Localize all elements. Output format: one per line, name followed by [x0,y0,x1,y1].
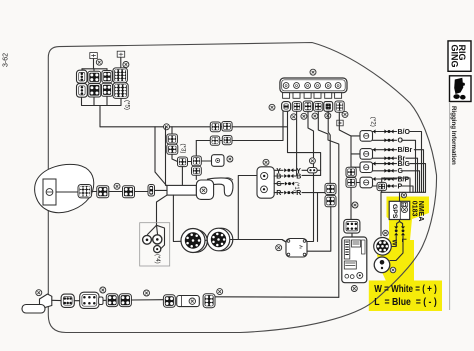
wire round1-round2 [207,240,210,242]
outboard motor blob [35,164,94,212]
boat hull outline [48,43,436,333]
highlight NMEA/GPS area [377,197,429,282]
wire B/Br row [373,149,397,151]
bullet W wire [394,226,398,235]
mark s6 [342,111,348,117]
wire K4 to base [155,189,168,191]
connector chain B [192,156,202,166]
svg-text:G: G [276,181,282,188]
arrow B/Br [373,148,376,152]
wire Y row b [293,169,296,171]
wire chain to corner [215,296,339,299]
mark on control head [200,187,207,194]
wire strip3 to b-box [307,112,314,242]
wire B row c [302,174,321,176]
connector S1 [106,294,118,307]
bullet G [384,169,393,173]
strip lower tabs [283,93,342,99]
wire strip1 down detour [288,111,321,175]
svg-text:(*2): (*2) [370,117,377,127]
wire collect [381,191,426,193]
mark round7 [383,230,389,236]
wire gps split [397,220,400,227]
tab RIG GING box [448,41,471,71]
wire strip5 to P2 [328,111,330,183]
connector K3 [123,186,135,198]
wire harness2 [196,112,283,141]
bullet R row [284,191,293,195]
mark t2 [100,287,106,293]
GPS mini connector [401,202,407,206]
bullet O [384,138,393,142]
wire Y row a [274,169,283,171]
svg-text:B/O: B/O [398,129,411,136]
wire G row [373,170,397,172]
highlight wire text box [369,281,442,312]
strip connector 2 [292,102,301,112]
wire W down [392,235,396,246]
wire K1-K2 [92,191,97,193]
wire strip6 groups bus [339,112,351,167]
wire cluster feed down [99,106,101,127]
mark yrow [309,158,315,164]
connector pair2 right [222,136,232,145]
bullet B/O [384,130,393,134]
gauge box a [257,167,274,198]
mark 46 [227,156,233,162]
wire box2-S1 [103,299,106,301]
wire fan mid [157,225,158,234]
wire strip4 long bus [318,111,339,297]
wire O row [373,139,397,141]
strip connector 5 [324,102,333,112]
wire 6dot to ecu [351,233,353,237]
ring terminal 3 [154,246,161,253]
wire P row [373,185,397,187]
connector P1 lower [346,178,356,188]
connector row1-4 [113,68,128,83]
bullet Br [384,156,393,160]
page edge line [449,103,451,310]
bullet B/P [384,177,393,181]
ring terminal 2 [153,235,162,244]
round connector 1 [185,230,208,253]
connector chain A [178,157,188,167]
wire gps split2 [400,222,403,227]
wire B/G right [410,164,425,193]
wire fan left [148,225,157,234]
connector bottom box1 [61,294,74,307]
mark s2 [291,114,297,120]
wire lower bracket stem3 [106,97,108,106]
wire chainB-relay [201,160,211,162]
svg-text:3-62: 3-62 [3,53,10,67]
mark s3 [301,113,307,119]
wire chainB up [195,141,197,156]
connector chain C [192,166,202,175]
wire fan right [157,225,165,248]
wire down to round [380,192,382,236]
sub unit box b [286,239,307,258]
mark 39 [310,69,316,75]
svg-text:R: R [296,190,301,197]
mark 56 [96,59,102,65]
wire cluster bracket top [82,68,107,70]
mark junction 40 [164,124,170,130]
GPS box [389,201,410,219]
wire main harness [100,126,288,128]
remote control head [196,180,213,199]
svg-text:L = Blue = ( - ): L = Blue = ( - ) [374,297,437,308]
connector P2 upper [325,183,336,194]
wire strip2 down [296,111,298,175]
feed group B/O [360,131,373,142]
feed group B/P [360,177,373,188]
wire stub to *3 pair [171,127,173,134]
svg-text:O: O [398,138,404,145]
wire R row a [274,192,283,194]
wire round1-round2 [205,239,207,242]
mark b [276,245,282,251]
strip connector 6 [335,101,344,112]
wire bus to 6dot [350,187,352,219]
wire into base diag [155,127,167,186]
transom bracket [40,294,52,308]
mark t3 [144,290,150,296]
wire G row a [274,183,284,185]
wire R row c [302,192,325,194]
mark s4 [312,113,318,119]
bullet B/Br [384,148,393,152]
mark N [114,183,120,189]
connector row1-2 [88,71,101,83]
tab icon box [450,76,472,102]
bullet Y row [284,168,293,172]
box2 nub [99,297,103,305]
connector K1 [78,185,92,198]
connector row1-1 [77,70,88,83]
arrow B/O [373,129,376,133]
bullet B row [284,174,293,178]
strip connector 3 [303,101,312,112]
feed group B/Br [360,149,373,160]
wire chainC down [195,175,197,179]
wire K3-K4 [135,191,151,193]
connector K4 [148,185,155,197]
wire control to trim box [157,195,168,225]
arrow B/P [373,177,376,181]
connector S2 [119,294,131,307]
wire B row b [293,175,296,177]
wire pair to chain [172,154,178,161]
connector P1 upper [346,167,356,177]
wire B/G left [351,166,360,168]
bullet B/G [384,162,393,166]
mark t1 [36,290,42,296]
connector row2-1 [77,84,88,98]
oval connector Y [308,168,318,173]
wire B/O right [410,132,421,193]
svg-text:GPS: GPS [391,204,398,219]
wire bracket stem1 [81,69,83,72]
feed group B/G [360,162,373,173]
wire G right [402,171,420,193]
tab boat icon [454,78,463,94]
round connector 2 [207,228,230,251]
mark s5 [325,113,331,119]
ring terminal 1 [143,235,152,244]
mark 57 [123,62,129,68]
wire bracket stem2 [93,69,95,73]
wire round2 right [233,240,286,243]
wire B/P left [351,182,360,184]
round connector 2pin [374,257,390,273]
mark gps stem [401,193,406,198]
wire P right [402,186,413,192]
wire R row down [317,193,319,242]
wire box1-box2 [74,300,79,302]
mark ecu below [351,286,357,292]
wire gauge to harness [238,176,257,240]
wire Y row d [317,169,320,171]
wire O right [402,140,416,192]
connector bottom box2 [80,292,99,308]
connector row2-4 [113,83,128,99]
wire motor to K1 [56,191,78,193]
svg-text:B: B [296,174,301,181]
wire control to round1 [173,195,181,241]
junction strip [280,78,347,93]
wire S2-S3 [131,299,163,301]
wire bracket to box1 [52,299,61,301]
bullet L wire [401,226,405,235]
tag connector a1 [90,53,98,59]
plug connector [177,296,200,307]
connector S4 [203,294,215,308]
svg-text:P: P [398,183,403,190]
wire Br row [373,157,397,159]
wire bracket stem3 [106,69,108,72]
strip connector 1 [282,102,291,112]
connector *3 upper [167,134,178,144]
connector harness small [377,182,387,190]
connector K2 [97,186,109,198]
mark bus [352,202,358,208]
connector P2 lower [325,195,336,206]
svg-text:B: B [276,174,281,181]
svg-text:(*5): (*5) [124,100,131,110]
strip connector 4 [314,102,323,112]
connector pair1 right [222,122,232,132]
wire B/Br right [414,150,423,193]
svg-text:R: R [276,190,281,197]
wire chainA down [181,167,183,186]
wire harness stub [381,191,383,193]
wire B row a [274,175,283,177]
connector row2-3 [102,83,113,96]
svg-text:(*4): (*4) [154,254,160,264]
wire Y row c [302,169,308,171]
svg-text:B/Br: B/Br [398,147,413,154]
connector 6dot [344,219,360,233]
wire round2 right [230,240,286,243]
wire B/O left [351,135,360,137]
wire cluster lower bracket [82,98,122,106]
wire tag1 stem [93,59,95,69]
motor inner unit [43,179,56,205]
remote control base [167,185,196,195]
bullet P [384,184,393,188]
control unit box [342,237,367,283]
wire chainA-B [188,161,192,163]
svg-text:G: G [398,168,404,175]
mark a gauge [263,159,269,165]
arrow B/G [373,162,376,166]
wire Br right [406,158,418,192]
mark gps [402,207,408,213]
connector S3 [163,295,175,308]
svg-text:B/G: B/G [398,161,411,168]
wire B/G row [373,163,397,165]
wire B/Br left [351,153,360,155]
round connector 1 [181,229,205,253]
svg-text:W = White = ( + ): W = White = ( + ) [374,284,437,295]
connector pair1 left [210,122,220,132]
wire lower bracket stem2 [93,97,95,105]
mark s0 [269,104,275,110]
wire b bottom [307,207,331,252]
tag connector a2 [117,51,125,57]
mark round2 [390,267,396,273]
relay box [212,155,225,167]
svg-text:Rigging Information: Rigging Information [450,106,457,165]
round connector 2 [210,228,233,251]
wire B/P row [373,178,397,180]
trim sender box [140,223,170,266]
wire into base vertical [165,127,167,186]
tag strip [337,120,343,126]
wire harness up [382,178,410,182]
wire gps stem [399,192,401,201]
wire L down [390,235,403,260]
connector pair2 left [210,136,219,145]
wire R row b [293,192,296,194]
wire B/P right [409,179,411,192]
control lever [208,178,233,196]
connector row2-2 [88,84,101,97]
wire K2-K3 [109,191,123,193]
connector row1-3 [102,71,112,83]
round connector GPS 7pin [374,238,392,256]
wire tag2 stem [120,57,122,68]
bullet G row [285,182,294,186]
mark t4 [217,289,223,295]
svg-text:(*3): (*3) [180,144,187,154]
svg-text:L: L [400,238,407,242]
connector *3 lower [167,144,178,154]
wire B/O row [373,131,397,133]
